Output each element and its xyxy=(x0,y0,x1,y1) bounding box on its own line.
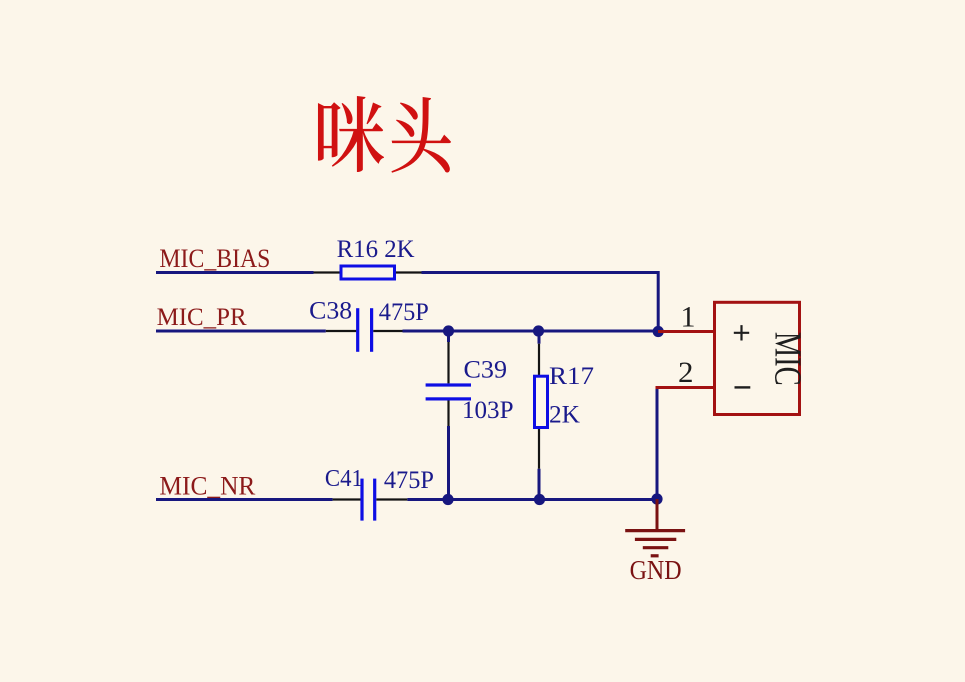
svg-text:2K: 2K xyxy=(549,402,580,429)
svg-text:MIC_PR: MIC_PR xyxy=(157,302,247,331)
svg-text:R17: R17 xyxy=(549,363,594,390)
svg-text:R16 2K: R16 2K xyxy=(337,236,415,263)
svg-text:MIC_BIAS: MIC_BIAS xyxy=(159,244,270,273)
svg-text:GND: GND xyxy=(630,555,682,585)
svg-text:C38: C38 xyxy=(309,297,352,324)
svg-text:C41: C41 xyxy=(325,466,363,492)
svg-text:475P: 475P xyxy=(384,467,434,494)
svg-text:C39: C39 xyxy=(464,357,508,384)
svg-text:MIC_NR: MIC_NR xyxy=(159,471,256,500)
svg-text:1: 1 xyxy=(681,300,696,333)
svg-text:103P: 103P xyxy=(462,397,514,424)
svg-text:475P: 475P xyxy=(379,299,429,326)
svg-text:2: 2 xyxy=(678,356,694,389)
svg-text:MIC: MIC xyxy=(767,332,809,386)
